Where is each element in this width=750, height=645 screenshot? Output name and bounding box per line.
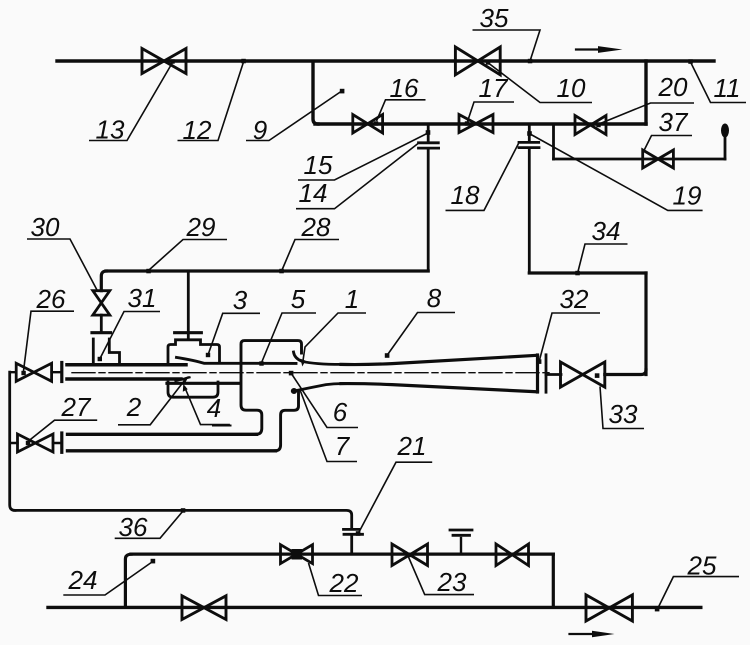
anchor valve 33 — [595, 373, 600, 378]
anchor valve 17 — [465, 121, 469, 125]
leader 36 — [115, 511, 183, 538]
arrowhead leader 1 — [300, 359, 305, 367]
wire valve 33 outlet to riser — [605, 370, 646, 375]
wire valve 30 tail — [100, 315, 103, 331]
svg-text:16: 16 — [390, 73, 419, 103]
leader 9 — [246, 92, 341, 141]
leader 15 — [298, 134, 427, 181]
anchor orifice 15 — [426, 130, 431, 135]
suction pipe end cap — [60, 433, 63, 452]
valve 33 — [561, 362, 605, 387]
svg-text:5: 5 — [291, 284, 306, 314]
wire riser to second header at x=313 — [313, 62, 318, 124]
wire orifice 21 to pump line — [350, 536, 353, 554]
leader 25 — [658, 577, 740, 609]
tee chamber 31 walls — [92, 339, 95, 363]
orifice device 14/15 bars — [419, 141, 439, 144]
leader 35 — [473, 30, 541, 60]
wire second header line — [315, 122, 646, 125]
wire left vertical main (valves 26/27 to line 36) — [10, 372, 15, 510]
svg-text:10: 10 — [557, 73, 586, 103]
svg-text:12: 12 — [183, 115, 212, 145]
svg-text:6: 6 — [333, 397, 348, 427]
svg-text:14: 14 — [299, 178, 328, 208]
valve 37 — [643, 150, 674, 168]
svg-text:34: 34 — [592, 216, 621, 246]
leader 16 — [377, 100, 426, 121]
sampling teardrop — [721, 124, 729, 138]
mixing tube / diffuser 8 upper wall — [341, 355, 538, 364]
svg-text:35: 35 — [480, 3, 509, 33]
anchor diffuser 8 — [385, 353, 390, 358]
svg-text:30: 30 — [31, 212, 60, 242]
svg-text:18: 18 — [451, 180, 480, 210]
leader 18 — [446, 144, 519, 211]
centerline dash-dot axis — [72, 372, 552, 374]
leader 31 — [101, 312, 161, 358]
svg-text:17: 17 — [479, 73, 509, 103]
leader 37 — [644, 136, 692, 151]
svg-text:32: 32 — [560, 284, 589, 314]
leader 1 — [303, 313, 366, 362]
svg-text:7: 7 — [335, 431, 351, 461]
svg-text:19: 19 — [673, 181, 702, 211]
orifice device 18/19 bars — [519, 141, 539, 144]
svg-text:21: 21 — [397, 431, 427, 461]
leader 5 — [262, 313, 316, 362]
wire riser right x=646 up to top line — [644, 61, 647, 124]
svg-text:9: 9 — [253, 115, 267, 145]
leader 3 — [209, 313, 261, 353]
leader 8 — [388, 313, 455, 355]
svg-text:36: 36 — [119, 512, 148, 542]
leader 27 — [29, 420, 98, 441]
wire drop to nozzle chamber 3 flange — [187, 271, 190, 339]
node on top line (35) — [528, 59, 533, 64]
svg-text:15: 15 — [304, 150, 333, 180]
svg-text:24: 24 — [68, 565, 98, 595]
valve 16 — [353, 115, 383, 134]
valve 23 — [392, 544, 428, 566]
leader 20 — [599, 103, 694, 124]
svg-text:25: 25 — [687, 551, 717, 581]
valve 26 — [16, 363, 51, 381]
mixing chamber body — [241, 341, 302, 435]
valve 22 — [281, 545, 313, 564]
svg-text:28: 28 — [301, 212, 331, 242]
leader 33 — [600, 387, 644, 429]
wire valve 26 stubs — [10, 371, 61, 373]
leader 14 — [296, 144, 418, 209]
supply pipe top wall — [67, 363, 186, 367]
svg-text:3: 3 — [233, 285, 248, 315]
valve 35 (line 10) — [455, 47, 500, 75]
anchor valve 35 — [486, 60, 490, 64]
chamber body lower wall line — [167, 382, 240, 385]
svg-text:31: 31 — [128, 283, 157, 313]
anchor line 36 — [181, 508, 186, 513]
leader 34 — [578, 244, 628, 272]
chamber 3 upper body — [168, 340, 220, 363]
mixing tube / diffuser 8 lower wall — [341, 384, 538, 392]
vent symbol — [460, 538, 462, 554]
anchor valve 13 — [170, 59, 174, 63]
anchor valve 22 blob — [292, 549, 303, 560]
svg-text:37: 37 — [659, 107, 689, 137]
valve 17 — [459, 115, 493, 133]
small hidden dash below mixing chamber — [213, 425, 231, 427]
nozzle tip lower line — [176, 377, 190, 381]
wire drop from orifice 18/19 to impulse line 34 — [528, 149, 531, 273]
leader 26 — [24, 311, 75, 371]
arrowhead leader 4 — [183, 384, 188, 392]
wire impulse header line 29/28 — [106, 269, 428, 272]
orifice 21 bars — [344, 528, 359, 531]
svg-text:27: 27 — [61, 392, 92, 422]
wire corner down to valve 30 — [101, 271, 106, 291]
wire line 34 drop to valve 33 outlet — [644, 273, 647, 375]
wire left drop of pump header — [125, 554, 131, 607]
wire bottom main line — [48, 606, 701, 609]
leader 23 — [409, 557, 475, 595]
valve bottom left (near 24) — [182, 596, 226, 620]
valve 27 — [18, 434, 54, 452]
leader 7 — [300, 389, 358, 462]
node line 29 — [146, 269, 151, 274]
svg-text:29: 29 — [186, 212, 216, 242]
nozzle 4 upper profile — [177, 357, 297, 363]
wire drop x=553.5 from second header to bypass 37 — [552, 125, 555, 159]
leader 17 — [468, 102, 515, 122]
svg-text:20: 20 — [658, 72, 688, 102]
anchor valve 23 — [406, 553, 410, 557]
bell mouth lower curve — [296, 384, 341, 391]
anchor valve 27 — [26, 441, 30, 445]
flange 32 bar — [545, 355, 548, 392]
leader 29 — [149, 240, 227, 271]
anchor orifice 21 — [356, 531, 361, 536]
leader 6 — [292, 375, 358, 428]
node on top line (12) — [241, 59, 246, 64]
leader 4 — [184, 386, 230, 425]
svg-text:8: 8 — [427, 283, 442, 313]
leader 11 — [691, 63, 746, 103]
anchor orifice 19 — [527, 131, 532, 136]
svg-text:1: 1 — [345, 284, 359, 314]
suction pipe bottom wall — [68, 449, 276, 452]
svg-text:13: 13 — [96, 115, 125, 145]
anchor 24 — [151, 559, 156, 564]
wire drop from orifice 14/15 to impulse line 29 — [427, 150, 430, 271]
leader 19 — [531, 135, 703, 211]
flange bar above tee 31 — [92, 331, 111, 334]
leader 21 — [359, 462, 432, 532]
svg-text:23: 23 — [437, 567, 467, 597]
diffuser exit plane — [536, 355, 539, 392]
wire flange to valve 33 — [546, 373, 561, 376]
leader 10 — [489, 64, 592, 103]
svg-text:22: 22 — [329, 568, 359, 598]
valve (unnumbered, right of 23) — [496, 544, 529, 566]
valve 20 — [575, 116, 606, 135]
leader 30 — [27, 239, 97, 290]
orifice device 14/15 vertical stub — [427, 125, 430, 140]
wire bypass right end riser — [724, 138, 727, 159]
supply pipe end cap — [60, 363, 63, 382]
wire pump suction header — [131, 552, 553, 555]
flange bar above chamber 3 — [175, 331, 202, 334]
leader 22 — [309, 563, 363, 596]
node bottom line 25 — [655, 607, 660, 612]
node line 28 — [279, 269, 284, 274]
wire valve 27 stubs — [10, 442, 61, 444]
flow arrow bottom — [570, 631, 615, 638]
anchor valve 16 — [374, 121, 378, 125]
wire top main line — [57, 59, 714, 62]
wire impulse line 34 — [529, 271, 646, 274]
svg-text:33: 33 — [609, 399, 638, 429]
anchor 9 — [340, 89, 345, 94]
anchor centerline 6 — [289, 371, 294, 376]
node line 34 — [575, 271, 580, 276]
anchor chamber 3 — [206, 353, 210, 357]
leader 28 — [282, 240, 339, 271]
svg-text:26: 26 — [36, 284, 66, 314]
anchor valve 20 — [596, 123, 600, 127]
orifice device 18/19 vertical stub — [528, 125, 531, 140]
leader 2 — [118, 379, 186, 425]
leader 13 — [89, 63, 173, 141]
anchor valve 26 — [21, 371, 25, 375]
wire line 36 — [14, 510, 352, 527]
svg-text:11: 11 — [714, 73, 741, 103]
valve 30 (vertical) — [93, 291, 110, 315]
svg-text:4: 4 — [207, 393, 221, 423]
wire bypass line 37 — [554, 158, 726, 161]
wire right drop of pump header — [552, 554, 555, 607]
anchor tee 31 — [98, 357, 102, 361]
valve bottom right (near 25) — [586, 595, 632, 621]
leader 12 — [178, 62, 244, 141]
flow arrow top — [576, 46, 623, 53]
arrowhead leader 2 — [182, 376, 189, 383]
leader 24 — [63, 562, 152, 595]
bell mouth upper curve — [294, 352, 342, 364]
chamber 3 lower body — [168, 382, 218, 397]
node on top line (11) — [688, 59, 693, 64]
svg-text:2: 2 — [126, 392, 142, 422]
anchor nozzle 5 — [259, 361, 263, 365]
suction pipe top wall — [68, 433, 257, 436]
valve 13 — [142, 49, 186, 74]
supply pipe bottom wall — [67, 377, 181, 381]
leader 32 — [540, 313, 601, 360]
anchor flange 32 — [537, 359, 542, 364]
